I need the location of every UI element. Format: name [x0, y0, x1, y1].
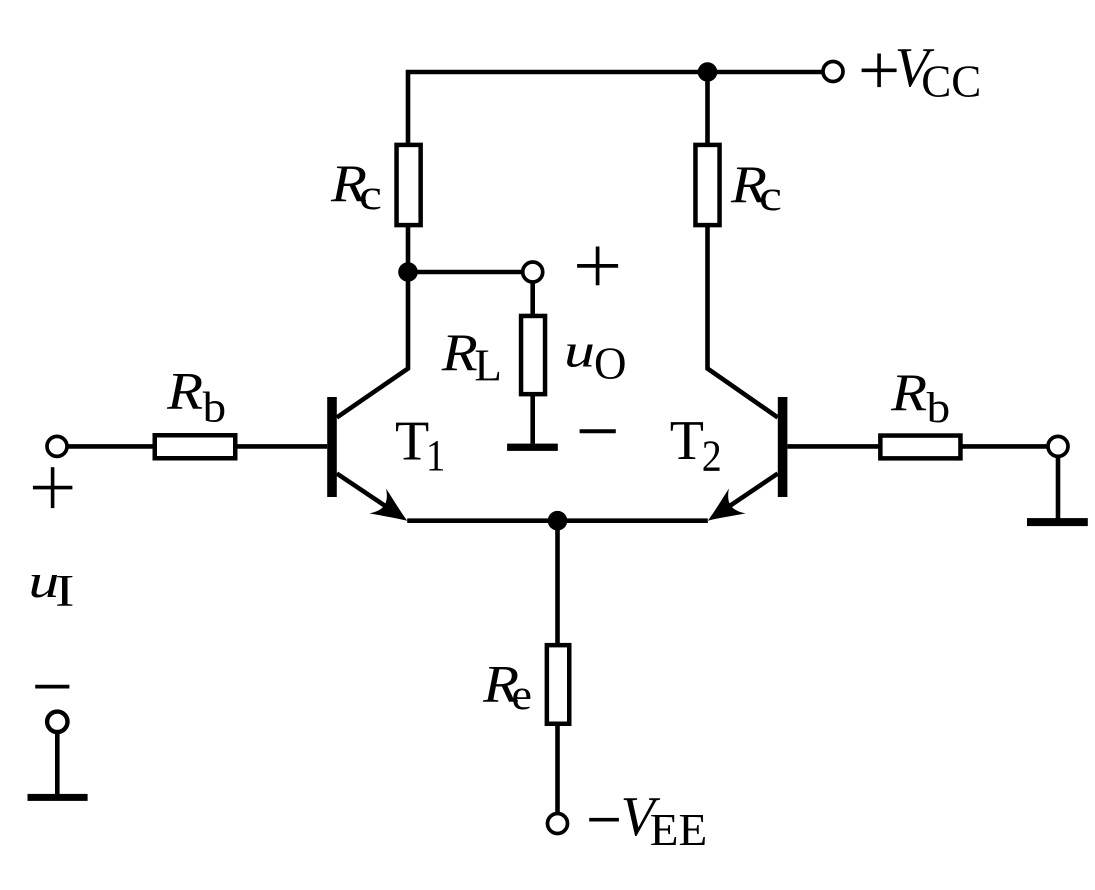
label VCC: [895, 37, 981, 107]
resistor Rc right body: [695, 145, 719, 225]
svg-text:T: T: [670, 410, 704, 472]
svg-text:c: c: [759, 173, 782, 220]
T2 emitter arrowhead: [699, 488, 745, 533]
terminal VEE: [548, 814, 568, 834]
svg-text:c: c: [359, 172, 382, 219]
wire Re column: [555, 521, 560, 824]
terminal input right: [1048, 436, 1068, 456]
svg-text:T: T: [395, 411, 429, 473]
svg-text:R: R: [441, 324, 478, 382]
terminal output +: [523, 262, 543, 282]
label RL: [441, 324, 502, 391]
label Re: [482, 656, 532, 720]
transistor T1 base bar: [327, 397, 337, 497]
wire output node to terminal: [408, 270, 533, 275]
svg-text:R: R: [166, 363, 203, 421]
wire left collector diagonal: [337, 272, 408, 418]
wire left base: [57, 444, 327, 449]
svg-text:CC: CC: [921, 57, 981, 107]
wire T1 emitter: [337, 474, 398, 515]
wire T2 emitter: [717, 474, 778, 515]
resistor RL body: [521, 316, 545, 394]
label Rc right: [730, 156, 782, 220]
wire right base: [787, 444, 1058, 449]
svg-text:1: 1: [426, 431, 446, 480]
resistor Rb left body: [155, 435, 236, 458]
label T1: [395, 411, 445, 481]
wire top rail VCC: [408, 72, 833, 274]
svg-text:R: R: [890, 364, 927, 422]
T1 emitter arrowhead: [369, 488, 415, 533]
svg-text:I: I: [55, 566, 75, 616]
minus sign output: [580, 429, 616, 433]
label uO: [564, 325, 627, 389]
junction dot collector node: [398, 262, 418, 282]
terminal source lower: [47, 712, 67, 732]
svg-text:b: b: [203, 385, 227, 432]
terminal input left: [47, 436, 67, 456]
ground under RL: [507, 444, 558, 451]
svg-text:b: b: [927, 385, 951, 432]
plus sign output: [577, 247, 618, 286]
label VEE: [621, 786, 708, 855]
minus sign of -VEE: [589, 818, 619, 822]
terminal VCC: [823, 62, 843, 82]
resistor Rb right body: [880, 436, 960, 459]
junction dot emitter bus: [548, 511, 568, 531]
svg-text:2: 2: [702, 431, 722, 480]
svg-text:O: O: [594, 339, 627, 389]
label Rb right: [890, 364, 950, 432]
resistor Re body: [547, 645, 569, 724]
minus sign input: [35, 685, 69, 689]
junction dot VCC: [698, 62, 718, 82]
svg-text:u: u: [564, 325, 595, 378]
wire right terminal to ground: [1056, 446, 1061, 519]
plus sign input: [33, 467, 73, 508]
label Rc left: [330, 155, 382, 219]
ground right: [1027, 518, 1088, 526]
svg-text:L: L: [474, 341, 502, 391]
svg-text:EE: EE: [650, 805, 708, 855]
plus sign of +VCC: [862, 54, 897, 88]
label Rb left: [166, 363, 226, 432]
wire right collector column: [708, 72, 778, 418]
label uI: [28, 555, 74, 616]
svg-text:e: e: [511, 672, 532, 719]
resistor Rc left body: [397, 145, 421, 225]
transistor T2 base bar: [778, 397, 788, 497]
ground left source: [28, 794, 88, 801]
label T2: [670, 410, 722, 480]
wire RL column: [530, 272, 535, 444]
wire emitter bus: [407, 518, 708, 523]
wire left source to ground: [55, 722, 60, 795]
